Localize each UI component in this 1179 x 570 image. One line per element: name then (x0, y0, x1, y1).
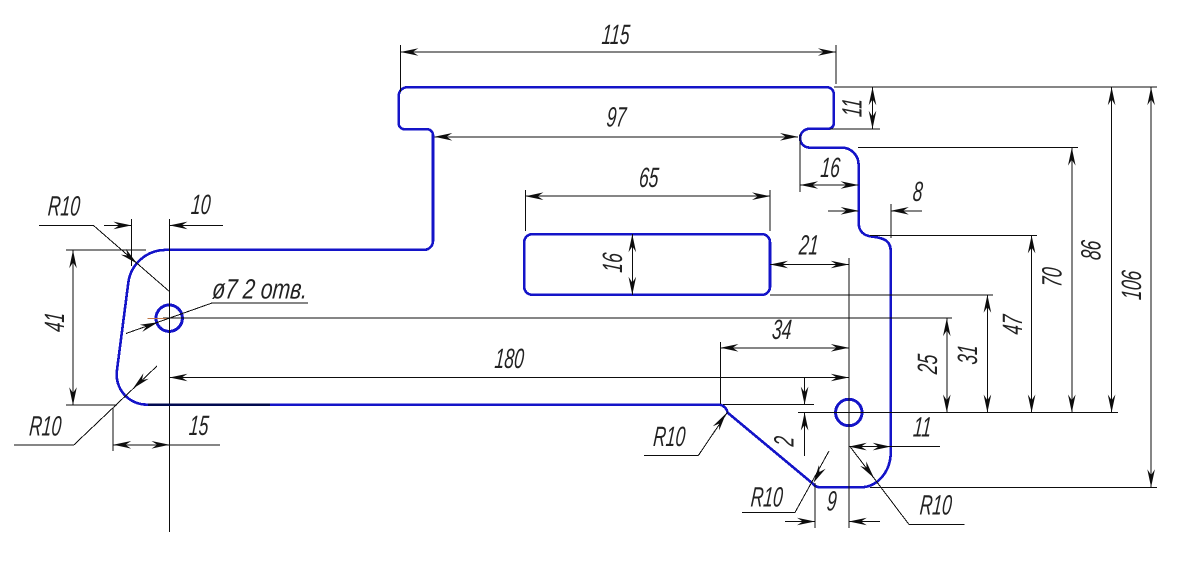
svg-text:34: 34 (771, 314, 793, 345)
svg-text:97: 97 (605, 101, 628, 132)
svg-text:41: 41 (39, 311, 70, 333)
svg-text:R10: R10 (919, 489, 954, 520)
svg-text:21: 21 (797, 229, 820, 260)
svg-text:R10: R10 (750, 481, 785, 512)
svg-text:R10: R10 (47, 190, 82, 221)
svg-text:65: 65 (638, 162, 661, 193)
svg-text:16: 16 (819, 152, 841, 183)
svg-text:16: 16 (597, 252, 628, 274)
svg-text:31: 31 (952, 344, 983, 366)
svg-text:R10: R10 (652, 421, 687, 452)
svg-text:11: 11 (912, 411, 933, 442)
svg-text:25: 25 (912, 352, 943, 376)
svg-text:ø7 2 отв.: ø7 2 отв. (211, 274, 309, 305)
svg-text:180: 180 (494, 343, 526, 374)
svg-text:106: 106 (1116, 269, 1147, 301)
svg-text:70: 70 (1036, 266, 1067, 288)
svg-text:115: 115 (601, 19, 632, 50)
svg-text:11: 11 (836, 97, 867, 118)
svg-text:10: 10 (190, 189, 212, 220)
svg-text:R10: R10 (28, 410, 63, 441)
svg-text:15: 15 (188, 410, 211, 441)
svg-text:86: 86 (1075, 239, 1106, 261)
svg-text:47: 47 (997, 313, 1028, 336)
